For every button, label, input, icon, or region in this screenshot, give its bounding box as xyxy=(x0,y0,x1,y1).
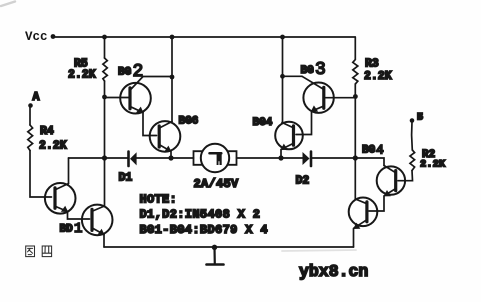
svg-text:2.2K: 2.2K xyxy=(68,69,96,82)
svg-text:2.2K: 2.2K xyxy=(420,159,446,171)
junction dot top rail x=172 xyxy=(170,35,175,40)
svg-text:2: 2 xyxy=(133,62,144,82)
diode D2 xyxy=(303,152,356,167)
svg-text:Б: Б xyxy=(417,113,423,124)
node BG3 base junction xyxy=(353,94,358,99)
wire motor rail right node down to Q collector xyxy=(354,158,356,199)
resistor R5 xyxy=(103,58,107,81)
transistor BD1 xyxy=(82,205,113,236)
svg-text:2A/45V: 2A/45V xyxy=(194,177,240,191)
wire BG1 collector up to motor rail left end xyxy=(68,158,70,184)
svg-text:BG: BG xyxy=(362,145,376,157)
svg-text:A: A xyxy=(33,91,40,104)
svg-text:D1: D1 xyxy=(119,172,133,185)
transistor BG3 xyxy=(302,76,356,113)
resistor R4 xyxy=(28,125,33,151)
wire bottom rail xyxy=(104,246,354,248)
label BG4 (lower pair) xyxy=(362,142,384,157)
node A terminal dot xyxy=(28,103,33,108)
wire Vcc top rail xyxy=(53,36,355,38)
svg-text:3: 3 xyxy=(315,60,326,80)
junction dot top rail x=104 xyxy=(102,35,107,40)
transistor BG1 xyxy=(45,183,76,214)
svg-text:D2: D2 xyxy=(296,175,310,188)
wire BG4b emitter to Q base xyxy=(369,196,384,211)
node Vcc terminal dot xyxy=(51,34,56,39)
wire BG2 collector to mid vertical xyxy=(143,76,172,78)
svg-text:BG1-BG4:BD679 X 4: BG1-BG4:BD679 X 4 xyxy=(140,223,268,237)
svg-text:R3: R3 xyxy=(365,58,379,71)
wire BG3 emitter to BG4 base xyxy=(296,111,312,134)
transistor BG4b (upper of bottom-right pair) xyxy=(377,166,405,197)
wire B to R2 xyxy=(411,122,414,150)
resistor R2 xyxy=(410,150,415,171)
svg-text:R4: R4 xyxy=(40,125,54,138)
wire right-mid vertical (top rail to BG4 collector) xyxy=(282,37,284,123)
label BD1 xyxy=(60,221,83,237)
junction dot mid vertical xyxy=(170,75,175,80)
caption figure 4 (Chinese) xyxy=(26,246,52,257)
wire mid vertical (top rail to BG6 collector) xyxy=(171,37,173,122)
resistor R3 xyxy=(353,60,358,85)
motor M 2A/45V xyxy=(194,144,237,172)
svg-text:BG: BG xyxy=(118,67,132,79)
wire R3 bottom to BG3 base node xyxy=(354,84,356,97)
svg-text:BG6: BG6 xyxy=(179,115,199,127)
scan streak above watermark xyxy=(282,250,356,251)
node B terminal dot xyxy=(410,118,415,123)
junction dot motor rail right end xyxy=(353,155,358,160)
wire A to R4 xyxy=(29,108,31,126)
svg-text:D1,D2:IN5408 X 2: D1,D2:IN5408 X 2 xyxy=(140,208,261,222)
svg-text:Vcc: Vcc xyxy=(25,30,48,44)
junction dot ground xyxy=(212,245,217,250)
diode D1 xyxy=(129,152,194,167)
junction dot motor rail BG4 emitter xyxy=(278,155,283,160)
svg-text:BG4: BG4 xyxy=(253,117,273,129)
wire BG1 emitter to BD1 base xyxy=(68,212,90,220)
svg-text:4: 4 xyxy=(376,142,384,157)
transistor BG6 xyxy=(150,121,181,152)
wire right vertical upper (Vcc to R3) xyxy=(354,37,356,60)
wire BD1 emitter down to bottom rail xyxy=(103,235,105,248)
svg-text:1: 1 xyxy=(74,221,82,237)
svg-text:2.2K: 2.2K xyxy=(364,70,392,83)
ground xyxy=(207,247,224,264)
svg-text:BG: BG xyxy=(301,65,315,77)
wire BG4 emitter down to motor rail xyxy=(280,150,282,159)
wire branch rail to BG4b collector xyxy=(355,158,384,166)
wire motor rail (motor to D2) xyxy=(237,157,303,159)
wire BG3 collector to right-mid vertical xyxy=(283,75,303,77)
wire motor rail down to BD1 collector xyxy=(104,158,106,206)
svg-text:HOTE:: HOTE: xyxy=(140,193,178,207)
wire motor rail (left segment to D1) xyxy=(69,157,128,159)
wire left vertical upper (Vcc to R5) xyxy=(104,37,106,58)
wire BG6 emitter to motor rail xyxy=(170,152,172,159)
wire BG2 emitter to BG6 base xyxy=(143,113,157,136)
wire BG3 base node down to motor rail xyxy=(354,97,356,159)
scan smudge top-left xyxy=(1,2,15,7)
svg-text:BD: BD xyxy=(60,224,74,236)
label BG3 xyxy=(301,60,326,80)
junction dot top rail x=282 xyxy=(280,35,285,40)
transistor Q (lower of bottom-right pair) xyxy=(349,198,378,230)
junction dot BG6 emitter on rail xyxy=(168,155,173,160)
wire R4 to BG1 base xyxy=(30,151,52,198)
junction dot right-mid vertical xyxy=(280,74,285,79)
wire BG2 base node down to motor rail xyxy=(104,97,106,158)
wire R5 bottom to BG2 base node xyxy=(104,81,106,97)
junction dot motor rail x=104 xyxy=(102,155,107,160)
wire Q emitter down to bottom rail xyxy=(353,229,355,248)
label BG2 xyxy=(118,62,143,82)
transistor BG4 xyxy=(275,122,303,150)
svg-text:ybx8.cn: ybx8.cn xyxy=(299,262,368,281)
wire R2 to BG4b base xyxy=(398,171,413,181)
node BG2 base junction xyxy=(102,95,107,100)
svg-text:2.2K: 2.2K xyxy=(39,140,67,153)
transistor BG2 xyxy=(105,77,151,114)
